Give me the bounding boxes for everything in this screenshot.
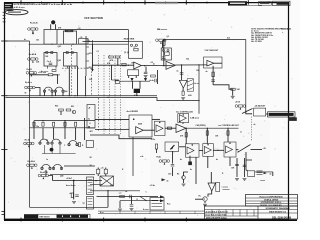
junction rail/R45 (29, 74, 30, 75)
svg-text:0.1: 0.1 (97, 51, 99, 53)
title block upper box (246, 195, 298, 207)
main bus wire lower (6, 96, 158, 98)
transistor q loop1 (46, 51, 49, 54)
mixer IC box (129, 115, 152, 137)
wire dn x131 (131, 197, 133, 205)
wire IC45 down (195, 157, 197, 184)
svg-text:Roland CORPORATION: Roland CORPORATION (259, 195, 283, 198)
bus dog-leg (157, 97, 199, 100)
svg-text:+xxxx: +xxxx (260, 180, 265, 182)
wire x92 (92, 40, 94, 50)
svg-text:Rv-41-B: Rv-41-B (30, 22, 38, 25)
switch S2 pole (238, 151, 239, 152)
stub BR b (74, 66, 76, 69)
svg-text:4x: 4x (153, 62, 155, 65)
ground cluster1 (235, 179, 239, 181)
svg-text:Q48: Q48 (60, 175, 63, 178)
resistor R66 (97, 169, 100, 174)
svg-text:+15: +15 (78, 28, 81, 30)
drop wire b (42, 128, 44, 139)
junction R51 (117, 65, 118, 66)
transistor Q41 can (51, 20, 55, 24)
wire R51 drop (117, 58, 119, 65)
wire stub x157 (157, 70, 159, 84)
svg-text:4x.4x: 4x.4x (150, 79, 154, 82)
wire Q48 in (195, 198, 203, 200)
resistor R50 (109, 56, 114, 58)
op-amp IC41b (166, 61, 175, 69)
resistor R60b (185, 133, 187, 137)
svg-text:+15: +15 (80, 37, 83, 39)
wire Q47 c (184, 172, 189, 176)
cell divider (211, 210, 213, 217)
transistor pair E (52, 164, 62, 169)
hatch box U5 (187, 79, 193, 92)
shield dashed c5 (120, 55, 122, 134)
resistor row c (53, 122, 55, 126)
svg-text:4558: 4558 (138, 122, 142, 125)
notes strip text2 gaps (62, 215, 80, 217)
rail stub (86, 46, 89, 48)
drop wire f (84, 118, 86, 140)
svg-text:E 4-7 F 4-3 G 4-9 H 42: E 4-7 F 4-3 G 4-9 H 42 (206, 214, 228, 217)
resistor row a (33, 122, 35, 126)
wire cluster v2 (244, 158, 246, 177)
transistor pair C (68, 141, 78, 146)
junction bus drop2 (227, 128, 228, 129)
capacitor C55 (162, 57, 166, 58)
svg-text:+15v xxx: +15v xxx (38, 72, 47, 74)
title row line3 (246, 203, 298, 205)
wire loop top extend (57, 29, 128, 31)
resistor R60 (151, 75, 156, 77)
shield dashed c4 (114, 55, 116, 134)
wire ic45 stub (189, 156, 191, 164)
ground Q48 (203, 204, 207, 206)
crystal box (248, 171, 255, 177)
svg-text:Ry-4x-x: Ry-4x-x (25, 81, 33, 84)
svg-text:+B ADJUST: +B ADJUST (255, 105, 267, 108)
wire loop TL (44, 30, 57, 45)
shield dashed v3 (98, 98, 100, 132)
notes strip text2 bar (57, 215, 89, 218)
left margin dash (3, 21, 6, 23)
ground bottom left (72, 202, 76, 204)
svg-text:Q44: Q44 (64, 90, 67, 93)
capacitor C41b (49, 63, 53, 64)
junction bus drop1 (207, 128, 208, 129)
stub BR a (67, 66, 69, 69)
capacitor C44 (211, 80, 215, 81)
main row line3 (205, 215, 259, 217)
cell divider (232, 210, 234, 217)
transistor pair B (51, 139, 61, 144)
top zone box REV (259, 2, 272, 6)
mixer box down wire (132, 137, 134, 176)
junction bottom bus (73, 180, 75, 182)
feedback loop 2 (161, 48, 171, 60)
resistor R62 (227, 131, 229, 135)
wire Q48 e (204, 201, 206, 203)
right rail wire (245, 40, 247, 111)
op-amp IC47 (boxed) (224, 142, 236, 157)
connector J3b pin (88, 203, 93, 205)
resistor R49c (86, 141, 93, 148)
tall box TB1 (87, 105, 95, 129)
junction out (144, 65, 145, 66)
wire box to connector (266, 113, 268, 115)
junction xbox (107, 190, 108, 191)
border tick top (103, 0, 105, 4)
junction in (92, 65, 93, 66)
connector label bar (268, 112, 296, 117)
diode Da (130, 78, 133, 81)
trimmer RV44 (25, 86, 35, 91)
wire L run (112, 79, 120, 81)
svg-text:Rx: Rx (199, 195, 201, 197)
transistor pair Q43/Q44 (43, 87, 53, 92)
junction fb start (163, 39, 164, 40)
wire pair feet c (54, 92, 56, 95)
trim wiper arrow2 (171, 145, 175, 150)
wire loop BR (64, 53, 78, 67)
wire L drop (111, 65, 113, 80)
signal wire bottom (97, 196, 141, 198)
svg-text:10u: 10u (36, 126, 39, 128)
offpage arrow 3 (162, 178, 166, 181)
junction mixer in (105, 129, 106, 130)
notes strip dark block (24, 214, 38, 218)
wire pairD down (45, 170, 47, 174)
transistor Q47 (182, 176, 186, 180)
resistor R44 (52, 70, 56, 72)
ground opamp1 (144, 75, 148, 77)
revision row2 text (5, 9, 12, 10)
wire loop BL (44, 53, 57, 67)
svg-text:+15: +15 (150, 62, 153, 64)
svg-text:4xxx 4xxxx: 4xxx 4xxxx (66, 184, 76, 187)
pair drop 1 (44, 145, 46, 154)
transistor q loop2 (51, 51, 54, 54)
border tick left (1, 95, 7, 97)
op-amp IC43a (136, 127, 144, 134)
connector pin a (257, 170, 263, 172)
IC48 side box (216, 183, 220, 192)
discharge box (128, 70, 139, 76)
shield dashed c2 (103, 55, 105, 134)
junction opamp3 top (179, 121, 180, 122)
svg-text:+B 15: +B 15 (235, 102, 240, 104)
svg-text:NOTE 1. RESISTORS xx 4x SHEET-: NOTE 1. RESISTORS xx 4x SHEET-2 xx 4 xxx… (14, 3, 74, 6)
wire pairs out (64, 165, 95, 167)
border tick left lower (2, 211, 5, 213)
revision block (dark) (4, 3, 13, 8)
svg-text:MODEL JU-6 MAIN BD: MODEL JU-6 MAIN BD (260, 204, 282, 207)
rail stub (86, 67, 89, 69)
capacitor C51 (243, 165, 247, 166)
svg-text:1u: 1u (46, 159, 48, 161)
notes strip box (38, 214, 90, 218)
wire Q41 leg2 (55, 24, 57, 29)
rev strip line (98, 210, 205, 213)
svg-text:OSL-2109-245-00: OSL-2109-245-00 (272, 216, 292, 219)
top zone SHEET text (277, 2, 289, 5)
top zone REV text (260, 3, 269, 4)
svg-text:Cu-4: Cu-4 (47, 60, 51, 63)
output device X (100, 176, 114, 186)
svg-text:+15: +15 (263, 148, 266, 150)
junction lb1 (42, 120, 43, 121)
wire ic43 to ic44 (165, 127, 176, 129)
capacitor C42 (144, 72, 148, 73)
resistor R59 (231, 88, 235, 90)
triangle down U5 (179, 80, 187, 88)
capacitor C48 (130, 195, 131, 199)
resistor row d (64, 122, 66, 126)
op-amp IC41a (134, 62, 142, 69)
wire R67 up (105, 168, 107, 170)
wire Q47 e (183, 179, 185, 183)
junction drop 181 (181, 64, 182, 65)
drop wire d (64, 121, 66, 139)
svg-text:SCHEMATIC DIAGRAM: SCHEMATIC DIAGRAM (266, 207, 290, 210)
wire disch d (139, 81, 141, 89)
wire disch a (128, 76, 130, 79)
wire sw down (246, 152, 252, 160)
svg-text:4x: 4x (24, 38, 26, 41)
border tick top (82, 1, 84, 3)
wire loop drop 77 (77, 66, 79, 96)
resistor R42 on loop (70, 30, 73, 32)
dashed drop from connector (251, 117, 253, 141)
border tick bottom (103, 218, 105, 222)
junction lb4 (75, 127, 76, 128)
wire R67 dn (105, 174, 107, 176)
svg-text:1x: 1x (240, 132, 242, 134)
resistor R68 (120, 196, 125, 198)
junction lb3 (53, 127, 54, 128)
svg-text:2K2: 2K2 (89, 53, 92, 55)
border tick top (165, 1, 167, 3)
rail stub (86, 39, 89, 41)
svg-text:Q43: Q43 (58, 45, 61, 48)
bottom wire bus (53, 180, 103, 182)
transistor pair D (41, 164, 51, 169)
wire disch e (136, 93, 138, 96)
wire into xbox (90, 184, 103, 186)
wire drop1 (206, 128, 208, 143)
wire rail drop 85 (85, 76, 87, 96)
trimmer RV45 (24, 142, 34, 147)
connector J3b pin (88, 206, 93, 208)
svg-text:+15: +15 (101, 168, 104, 170)
feedback bus wire (164, 39, 246, 41)
diode D1 (130, 44, 132, 46)
top zone underline (247, 5, 262, 7)
svg-text:Q45: Q45 (58, 59, 61, 62)
op-amp IC46 (boxed) (203, 144, 214, 157)
lower bus wire 2 (30, 127, 96, 129)
wire loop drop 69 (68, 66, 70, 96)
wire Q41 leg1 (50, 24, 52, 29)
resistor R57 fb (165, 52, 170, 55)
pair drop 3 (59, 145, 61, 154)
drop wire c (53, 128, 55, 139)
wire ic45-ic46 (199, 150, 203, 152)
wire R66 dn (97, 174, 99, 176)
resistor R51 (115, 56, 120, 58)
junction +15 chain (163, 65, 164, 66)
ground x120 (118, 209, 122, 211)
shield dashed c1 (98, 55, 100, 95)
wire disch b (135, 76, 137, 79)
wire mixer step (90, 135, 152, 139)
left margin dash (3, 14, 6, 16)
stub BL b (55, 66, 57, 69)
svg-text:Rv-43: Rv-43 (27, 68, 32, 71)
offpage arrow 2 (160, 199, 164, 202)
cell divider (253, 210, 255, 217)
svg-text:4x: 4x (88, 118, 90, 121)
transistor pair Q45/Q46 (54, 87, 64, 92)
connector J3a pin (88, 182, 93, 184)
connector label text (269, 113, 294, 116)
wire under xbox (90, 190, 140, 192)
wire opamp1 out (141, 65, 175, 67)
top zone box PAGE text (230, 3, 245, 4)
connector pin b (257, 172, 263, 174)
junction ic46 out (217, 150, 218, 151)
op-amp IC44 (176, 124, 186, 133)
wire switch to +15 (251, 149, 263, 151)
revision block row2 (4, 8, 13, 11)
cell divider (239, 210, 241, 217)
svg-text:4xx DRIVER: 4xx DRIVER (127, 110, 139, 113)
capacitor C49 (130, 205, 134, 206)
rail stub (86, 53, 89, 55)
resistor R61 (206, 131, 208, 135)
trimmer RV43 (26, 72, 36, 77)
svg-text:VCF SECTION: VCF SECTION (84, 16, 103, 20)
diode D2 (135, 44, 137, 46)
svg-text:4xx CONTROLLED: 4xx CONTROLLED (176, 111, 193, 114)
svg-text:4x: 4x (216, 158, 218, 161)
diode D4 (167, 49, 169, 51)
trimmer RV47 (156, 39, 167, 44)
wire diode row (120, 80, 150, 82)
top zone box SHEET (273, 1, 291, 5)
switch arm S1 (242, 109, 253, 114)
wire ic44 out bus (186, 127, 239, 129)
border tick top (185, 0, 187, 4)
bus junction d (69, 95, 70, 96)
op-amp IC44a (boxed) (178, 114, 189, 123)
connector J3b pin (88, 198, 93, 200)
wire opamp2 out (175, 64, 207, 66)
wire RV44 down (35, 88, 40, 96)
cell divider (246, 210, 248, 217)
wire disch c (132, 81, 134, 89)
connector arrow (264, 172, 267, 174)
svg-text:A7: A7 (164, 59, 166, 62)
trim box RV49 (165, 142, 179, 151)
resistor R41 on loop (65, 30, 68, 32)
wire +15 drop (163, 40, 165, 66)
border tick top (144, 0, 146, 4)
ground R59 (231, 96, 235, 98)
wire R47 drop (60, 111, 62, 115)
wire below C46 (172, 167, 174, 176)
svg-text:4x 41-4 xxxx: 4x 41-4 xxxx (14, 6, 26, 9)
connector pin c (257, 174, 263, 176)
wire loop TR (64, 31, 77, 44)
svg-text:A 4-10 B 4-2 C 4-8 D 41: A 4-10 B 4-2 C 4-8 D 41 (206, 210, 229, 213)
shield dashed c3 (109, 55, 111, 134)
trim wiper arrow (170, 145, 174, 150)
resistor row e (75, 122, 77, 126)
op-amp IC42 (207, 60, 214, 66)
svg-text:4-xx: 4-xx (100, 211, 104, 214)
capacitor C47 (75, 195, 79, 196)
svg-text:4u: 4u (206, 70, 208, 73)
border tick left (1, 149, 7, 151)
svg-text:4x: 4x (167, 179, 169, 182)
connector J4 pin (152, 199, 163, 201)
wire ic47 bottom (229, 157, 231, 166)
svg-text:4x: 4x (254, 123, 256, 126)
trimmer RV42 (28, 58, 38, 63)
trimmer RV41 arrow (32, 32, 34, 35)
transistor q loop3 (66, 51, 69, 54)
output device box (100, 176, 114, 186)
capacitor C45 (155, 79, 156, 83)
svg-text:4x: 4x (270, 172, 272, 175)
offpage arrow 1 (160, 195, 164, 198)
volt adjust box (204, 57, 223, 68)
diode D3 (163, 49, 165, 51)
stub BL a (47, 66, 49, 69)
top zone box PAGE (228, 1, 247, 5)
border tick top (268, 1, 270, 3)
tall box dot (88, 126, 90, 128)
wire IC48 down (208, 191, 212, 197)
resistor R47 (59, 109, 64, 111)
rail stub (86, 60, 89, 62)
ladder rung y44 (29, 43, 129, 45)
border tick left (1, 40, 7, 42)
junction fb in (128, 65, 129, 66)
border tick top (206, 1, 208, 3)
svg-text:Rv-42-B: Rv-42-B (29, 53, 37, 56)
border tick bottom (61, 218, 63, 222)
resistor R55 (163, 40, 166, 45)
svg-text:Q5: Q5 (167, 36, 169, 38)
svg-text:VOLT ADJUST: VOLT ADJUST (205, 49, 219, 52)
svg-text:OSAKA JAPAN: OSAKA JAPAN (264, 199, 279, 202)
wire R66 up (97, 168, 99, 170)
svg-text:4x: 4x (180, 158, 182, 161)
wire ic46-ic47 (213, 149, 224, 151)
resistor row b (42, 122, 44, 126)
trimmer RV48 (235, 105, 246, 110)
border tick bottom (185, 218, 187, 222)
shield dashed h (62, 67, 92, 69)
transistor Q48 (203, 197, 207, 201)
wire y41 cross (83, 41, 129, 43)
border tick top (20, 0, 22, 4)
border tick top (41, 1, 43, 3)
svg-text:C41: C41 (36, 39, 39, 42)
